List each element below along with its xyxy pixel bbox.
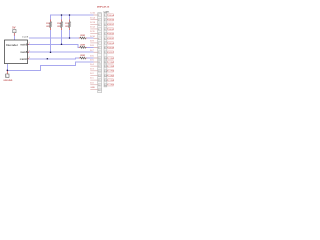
- svg-text:main8: main8: [20, 42, 28, 46]
- svg-text:COM1: COM1: [108, 58, 115, 60]
- svg-text:3: 3: [29, 57, 30, 59]
- svg-text:1: 1: [14, 31, 15, 33]
- svg-text:main8: main8: [20, 50, 28, 54]
- svg-text:13: 13: [104, 71, 106, 73]
- svg-text:SEGB: SEGB: [108, 20, 114, 22]
- svg-text:220R: 220R: [80, 44, 85, 46]
- svg-text:3: 3: [104, 24, 105, 26]
- svg-text:16: 16: [104, 85, 106, 87]
- svg-text:2: 2: [98, 20, 99, 22]
- svg-text:6: 6: [98, 38, 99, 40]
- svg-text:D 12: D 12: [90, 27, 95, 29]
- svg-text:4: 4: [104, 29, 105, 31]
- svg-text:10: 10: [98, 58, 100, 60]
- svg-text:8: 8: [104, 48, 105, 50]
- svg-text:SEGA: SEGA: [108, 14, 114, 17]
- svg-text:9: 9: [98, 52, 99, 54]
- svg-text:12: 12: [104, 66, 106, 68]
- svg-text:SEGE: SEGE: [108, 34, 114, 36]
- svg-text:SGDP: SGDP: [108, 52, 114, 54]
- svg-text:5: 5: [98, 34, 99, 36]
- svg-text:5: 5: [104, 34, 105, 36]
- svg-text:GROUND: GROUND: [3, 80, 12, 82]
- svg-text:13: 13: [98, 71, 100, 73]
- svg-text:SEGG: SEGG: [108, 43, 114, 45]
- svg-text:mainC: mainC: [20, 57, 28, 61]
- svg-text:C 15: C 15: [90, 13, 95, 15]
- svg-text:D 14: D 14: [90, 17, 95, 19]
- svg-text:1: 1: [98, 15, 99, 17]
- svg-text:12: 12: [98, 66, 100, 68]
- svg-text:1: 1: [29, 42, 30, 44]
- svg-text:11: 11: [98, 62, 100, 64]
- svg-text:14: 14: [104, 75, 106, 77]
- svg-text:11: 11: [104, 62, 106, 64]
- svg-text:2: 2: [29, 50, 30, 52]
- svg-text:17: 17: [98, 89, 100, 91]
- svg-text:4: 4: [98, 29, 99, 31]
- svg-text:DISPLAY-16: DISPLAY-16: [97, 5, 110, 8]
- svg-text:8: 8: [98, 48, 99, 50]
- svg-text:D 10: D 10: [90, 36, 95, 38]
- svg-text:SEGC: SEGC: [108, 24, 114, 26]
- svg-text:6: 6: [104, 38, 105, 40]
- svg-text:COM2: COM2: [108, 62, 115, 64]
- svg-text:SEGH: SEGH: [108, 47, 114, 49]
- svg-text:SEGF: SEGF: [108, 38, 114, 40]
- svg-text:D 13: D 13: [90, 22, 95, 24]
- svg-text:mainB: mainB: [22, 37, 29, 39]
- svg-text:COM4: COM4: [108, 71, 115, 73]
- svg-text:1: 1: [104, 15, 105, 17]
- svg-text:7: 7: [104, 43, 105, 45]
- svg-text:GND: GND: [90, 87, 95, 89]
- svg-text:7: 7: [98, 43, 99, 45]
- svg-text:9: 9: [104, 52, 105, 54]
- svg-text:CON1: CON1: [103, 11, 110, 13]
- svg-text:Decoder: Decoder: [6, 43, 18, 47]
- svg-text:SEGD: SEGD: [108, 29, 114, 31]
- svg-text:COM5: COM5: [108, 75, 115, 77]
- svg-text:15: 15: [98, 80, 100, 82]
- svg-text:COM7: COM7: [108, 85, 115, 87]
- svg-text:16: 16: [98, 85, 100, 87]
- svg-text:3: 3: [98, 24, 99, 26]
- svg-text:220R: 220R: [80, 55, 85, 57]
- svg-text:5V: 5V: [12, 26, 15, 30]
- svg-text:14: 14: [98, 75, 100, 77]
- svg-text:10: 10: [104, 58, 106, 60]
- svg-text:220R: 220R: [80, 35, 85, 37]
- svg-text:D 11: D 11: [90, 31, 95, 33]
- svg-text:COM3: COM3: [108, 66, 115, 68]
- svg-text:2: 2: [104, 20, 105, 22]
- svg-text:COM6: COM6: [108, 80, 115, 82]
- svg-text:15: 15: [104, 80, 106, 82]
